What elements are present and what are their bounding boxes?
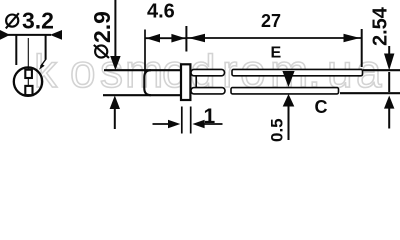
arrow pointing left	[146, 34, 160, 43]
arrow down to body top	[110, 56, 120, 70]
lead-frame fork line	[195, 76, 197, 88]
arrow pointing left	[188, 34, 205, 43]
bottom extension (C lead bottom edge)	[340, 92, 400, 94]
leader arrow to circle edge	[41, 59, 47, 67]
svg-text:C: C	[315, 97, 328, 117]
arrow pointing right	[171, 34, 185, 43]
dim line	[186, 37, 361, 39]
svg-text:4.6: 4.6	[147, 1, 175, 23]
left line + arrow pointing right	[153, 123, 171, 125]
extension line left	[181, 107, 183, 134]
svg-text:0.5: 0.5	[268, 118, 287, 142]
svg-text:27: 27	[261, 11, 281, 31]
emitter lead segment 1	[191, 69, 225, 75]
lead cross-section upper	[25, 70, 32, 78]
node centerline	[27, 38, 29, 96]
arrow up to C lead bottom	[283, 94, 295, 107]
dim line with outside arrows	[388, 46, 390, 54]
extension line right	[45, 36, 47, 60]
extension line at lead end	[361, 29, 363, 67]
arrow left (outside)	[0, 30, 10, 40]
arrow right (outside)	[50, 30, 62, 40]
label 2.54 rotated	[370, 6, 392, 46]
arrow down onto C lead	[282, 71, 294, 87]
dome left cap	[144, 70, 151, 95]
top extension (E lead top edge)	[363, 69, 400, 71]
extension line left	[15, 36, 17, 66]
lead cross-section lower	[25, 86, 32, 95]
arrow up to body bottom	[110, 96, 120, 110]
flange	[181, 64, 190, 100]
body top line + extension	[104, 69, 182, 71]
circle package outline	[14, 67, 42, 95]
shared extension line at flange center	[185, 26, 187, 52]
collector lead segment 1	[191, 88, 225, 94]
label 0.5 rotated	[268, 118, 287, 142]
svg-text:E: E	[271, 45, 282, 62]
svg-text:1: 1	[204, 105, 216, 128]
dimension Ø3.2 label	[6, 8, 54, 34]
dimension Ø3.2 line	[8, 34, 51, 36]
dim line down	[114, 0, 116, 57]
extension line right	[190, 107, 192, 134]
svg-text:2.54: 2.54	[370, 6, 392, 46]
watermark kosmodrom.ua	[34, 45, 382, 97]
svg-text:3.2: 3.2	[22, 8, 54, 34]
right arrow pointing left + line	[192, 120, 204, 129]
emitter lead segment 2	[232, 69, 363, 75]
arrow pointing right	[344, 34, 361, 43]
extension line at dome tip	[144, 30, 146, 73]
collector lead segment 2	[231, 88, 339, 94]
dim line	[145, 37, 186, 39]
label Ø2.9 rotated	[89, 11, 115, 58]
body bottom line + extension	[103, 94, 182, 96]
svg-text:2.9: 2.9	[89, 11, 115, 43]
